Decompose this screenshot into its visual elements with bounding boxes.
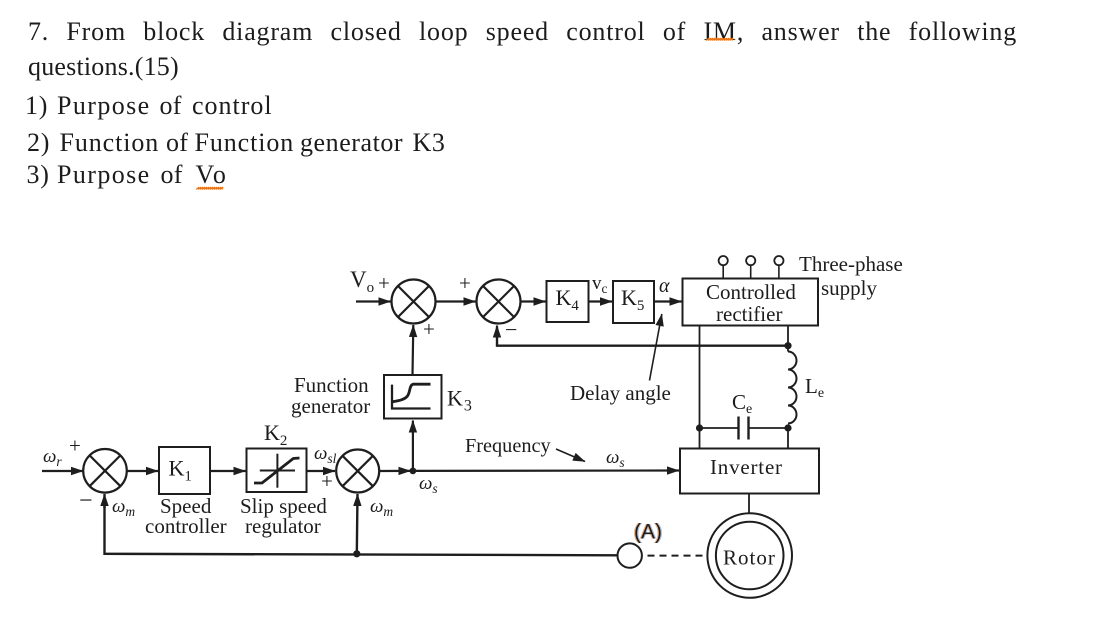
- tacho circle (A): [618, 543, 642, 567]
- wire: J1 to J2: [436, 300, 476, 302]
- node dot on omega_s line: [410, 468, 417, 475]
- svg-text:−: −: [79, 488, 93, 514]
- wire: J3 to K1: [127, 470, 158, 472]
- wire: regulator to J4: [307, 470, 336, 472]
- wire: function generator to J1: [411, 325, 414, 375]
- summing junction J4: [336, 450, 379, 493]
- wire: inverter to rotor: [748, 494, 750, 514]
- question item 1: [25, 93, 48, 119]
- wire: speed feedback bottom line: [105, 500, 618, 555]
- svg-text:+: +: [423, 317, 435, 341]
- svg-text:+: +: [321, 469, 333, 493]
- node dot below inductor: [784, 424, 791, 431]
- function generator K3 box: [384, 375, 442, 419]
- dashed shaft link: [648, 555, 707, 557]
- svg-text:K2: K2: [264, 420, 287, 449]
- svg-text:K1: K1: [169, 456, 192, 485]
- svg-text:Ce: Ce: [732, 390, 752, 417]
- wire: omega_r input arrow: [42, 470, 83, 472]
- speed controller K1 box: [159, 447, 210, 494]
- K4 box: [547, 281, 589, 322]
- wire: right rail to inverter: [787, 428, 789, 449]
- svg-text:ωr: ωr: [43, 446, 62, 469]
- summing junction J1: [392, 280, 436, 324]
- svg-text:ωs: ωs: [419, 473, 438, 496]
- svg-text:(A): (A): [634, 521, 662, 544]
- function generator axes: [392, 385, 431, 409]
- frequency pointer line: [556, 449, 585, 462]
- three-phase supply terminal 3: [774, 256, 783, 265]
- controlled rectifier box: [683, 279, 819, 326]
- inverter box: [680, 449, 819, 494]
- capacitor Ce: [700, 427, 739, 429]
- svg-text:vc: vc: [592, 273, 608, 296]
- K5 box: [613, 281, 654, 323]
- svg-text:supply: supply: [821, 276, 878, 300]
- wire: Vo input arrow: [356, 300, 391, 302]
- svg-text:Frequency: Frequency: [465, 435, 551, 457]
- svg-text:ωm: ωm: [370, 496, 393, 519]
- slip speed regulator K2 box: [247, 449, 307, 493]
- node dot left rail: [696, 424, 703, 431]
- squiggle under IM: [706, 38, 733, 41]
- svg-text:regulator: regulator: [245, 514, 321, 538]
- question text line 2: [28, 54, 179, 80]
- wire: feedback from dc rail to J2: [497, 328, 788, 346]
- question item 2: [27, 130, 50, 156]
- wire: node up into function generator: [412, 421, 414, 471]
- svg-text:ωs: ωs: [606, 447, 625, 470]
- wire: rectifier right dc rail upper: [787, 326, 789, 352]
- wire: J2 to K4: [521, 300, 546, 302]
- wire: J4 to node, omega_s line to inverter: [379, 470, 410, 472]
- slip regulator axes: [276, 454, 278, 488]
- wire: K1 to slip regulator: [210, 470, 246, 472]
- svg-text:Delay angle: Delay angle: [570, 381, 671, 405]
- wire: K4 to K5: [589, 300, 613, 302]
- summing junction J3: [83, 449, 127, 493]
- slip regulator limiter curve: [254, 458, 300, 483]
- svg-text:−: −: [505, 317, 517, 342]
- node dot at rectifier right rail: [784, 342, 791, 349]
- wire: K5 to rectifier (alpha): [654, 300, 682, 302]
- svg-text:controller: controller: [145, 514, 227, 538]
- svg-text:rectifier: rectifier: [716, 302, 782, 326]
- question text line 1 (justified): [28, 19, 1017, 45]
- svg-text:Vo: Vo: [350, 267, 374, 296]
- svg-text:+: +: [459, 271, 471, 295]
- squiggle under Vo: [196, 187, 223, 190]
- function generator curve: [393, 384, 431, 402]
- three-phase supply terminal 1: [719, 256, 728, 265]
- svg-text:ωm: ωm: [112, 496, 135, 519]
- svg-text:Three-phase: Three-phase: [799, 252, 903, 276]
- wire: rectifier left dc rail: [699, 326, 701, 449]
- svg-text:generator: generator: [291, 394, 370, 418]
- delay angle pointer line: [650, 314, 662, 381]
- svg-text:K3: K3: [447, 386, 472, 415]
- svg-text:+: +: [378, 271, 390, 295]
- inductor Le: [788, 352, 797, 424]
- svg-text:K4: K4: [556, 285, 580, 314]
- three-phase supply terminal 2: [746, 256, 755, 265]
- wire: branch up to J4: [356, 494, 359, 554]
- svg-text:ωsl: ωsl: [314, 443, 337, 466]
- node dot bottom line: [353, 550, 360, 557]
- rotor outer circle: [707, 513, 792, 598]
- svg-text:K5: K5: [621, 285, 644, 314]
- svg-text:α: α: [659, 275, 670, 297]
- svg-text:Le: Le: [805, 374, 824, 401]
- rotor inner circle: [716, 522, 784, 590]
- svg-text:Controlled: Controlled: [706, 280, 796, 304]
- svg-text:+: +: [69, 434, 81, 458]
- summing junction J2: [477, 280, 521, 324]
- question item 3: [27, 162, 50, 188]
- svg-text:Rotor: Rotor: [723, 546, 776, 570]
- svg-text:Inverter: Inverter: [710, 455, 783, 479]
